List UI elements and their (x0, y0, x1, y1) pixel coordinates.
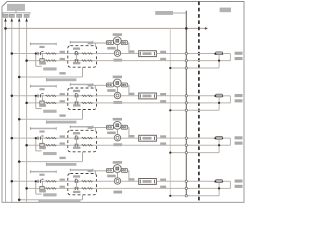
row1 breaker thermal element A1 (46, 53, 51, 55)
row2 breaker bottom label (39, 104, 46, 107)
row3 starter overload A2 (88, 137, 93, 139)
row1 rail C to A link (218, 55, 220, 68)
row3 rail A wire label mid (129, 135, 134, 137)
row2 starter K2 label bar (70, 84, 92, 86)
row4 rail A wire label mid (129, 178, 134, 180)
row3 terminal block right (121, 125, 127, 129)
row4 starter rail A inside (68, 180, 97, 182)
row3 starter rail A inside (68, 137, 97, 139)
row2 rail B to field (97, 102, 231, 104)
row3 starter overload B1 (82, 144, 87, 146)
row1 starter inner bottom label (73, 62, 80, 64)
row4 starter K4 dashed enclosure (68, 174, 97, 195)
row1 trunk terminal A (185, 52, 187, 54)
row4 trunk terminal C (185, 195, 187, 197)
row2 rail C wire (170, 109, 219, 111)
row2 starter mechanical link (76, 95, 78, 103)
row4 breaker bottom label (39, 190, 46, 193)
row2 meter M2 (114, 92, 120, 98)
row3 field loop wire (223, 137, 231, 139)
row4 starter inner bottom label (73, 191, 80, 193)
row1 breaker bottom label (39, 62, 46, 65)
row4 field device F4 (216, 180, 223, 183)
row1 rail B field wire number (160, 58, 166, 60)
row1 starter mechanical link (76, 53, 78, 61)
row1 junction bus L2 rail A (11, 52, 14, 55)
row3 rail C to A link (218, 139, 220, 152)
field boundary dashed line (198, 2, 200, 203)
row1 auxiliary tap junction (35, 52, 37, 54)
row3 cable wire from bus L3 (19, 161, 82, 163)
row2 junction bus N rail B (25, 102, 28, 105)
row4 starter mechanical link (76, 181, 78, 189)
row2 starter overload B1 (82, 102, 87, 104)
row2 starter K2 dashed enclosure (68, 88, 97, 110)
row1 rail C wire (170, 67, 219, 69)
row4 rail C tap junction (169, 195, 171, 197)
row3 link junction (218, 144, 220, 146)
row4 rail C wire (170, 195, 219, 197)
row1 coil feed stub (94, 43, 96, 46)
row2 rail A to junction box (97, 95, 115, 97)
row3 breaker mechanical link (41, 138, 43, 146)
row2 solenoid to meter link (116, 87, 118, 93)
row2 cable wire from bus L3 (19, 118, 82, 120)
row2 auxiliary tap wire (35, 96, 37, 109)
feeder arrowhead (205, 27, 208, 30)
row4 coil feed wire (90, 170, 107, 172)
row1 starter rail B inside (68, 60, 97, 62)
row2 junction bus L2 rail A (11, 95, 14, 98)
row1 terminal strip X1 (139, 51, 157, 57)
row2 output label lower (235, 99, 243, 102)
row1 rail A wire number (60, 51, 65, 53)
page border frame with folded corner (2, 2, 244, 203)
row3 field device F3 (216, 136, 223, 139)
row3 terminal block left (106, 125, 113, 129)
row4 breaker Q4 value label (39, 174, 44, 176)
wire from net label to trunk (173, 12, 186, 14)
row2 field device F2 (216, 94, 223, 97)
row1 rail A to junction box (97, 53, 115, 55)
row1 trunk terminal C (185, 67, 187, 69)
row1 terminal block left (106, 41, 113, 45)
top right reference label (220, 8, 231, 13)
row2 coil feed stub (94, 85, 96, 88)
row2 breaker thermal element A2 (51, 95, 56, 97)
row2 breaker mechanical link (41, 95, 43, 103)
row1 link junction (218, 60, 220, 62)
row1 breaker Q1 label bar (31, 43, 57, 45)
row2 starter contact pole A (74, 94, 76, 97)
row3 breaker Q3 label bar (31, 128, 57, 130)
row3 solenoid Y3 (113, 121, 121, 129)
row4 solenoid to meter link (116, 172, 118, 178)
row1 rail B to field (97, 60, 231, 62)
row2 trunk terminal A (185, 95, 187, 97)
feeder junction at bus L1 (4, 27, 7, 30)
row2 solenoid mid label (107, 89, 116, 92)
row3 rail B field wire number (160, 142, 166, 144)
row4 trunk terminal A (185, 180, 187, 182)
row3 breaker Q3 contact pole A (37, 137, 39, 140)
row1 rail A field wire number (160, 51, 166, 53)
row1 field device F1 (216, 52, 223, 55)
row1 auxiliary wire label (43, 67, 56, 70)
row3 auxiliary tap wire (35, 138, 37, 151)
row4 breaker thermal element A2 (51, 181, 56, 183)
row1 meter bottom label (114, 59, 123, 62)
row3 coil feed stub (94, 128, 96, 131)
row1 rail A to terminal strip (121, 53, 139, 55)
row2 starter overload A2 (88, 95, 93, 97)
row1 solenoid to meter link (116, 45, 118, 51)
row4 breaker thermal element B1 (46, 188, 51, 190)
row1 cable drop wire (82, 67, 84, 77)
row3 output label upper (235, 136, 243, 139)
row4 starter contact pole B (74, 187, 76, 190)
row3 starter mechanical link (76, 138, 78, 146)
row2 solenoid Y2 label (113, 76, 122, 79)
row4 cable designation bar (40, 200, 81, 202)
main horizontal feeder wire (6, 27, 206, 29)
row3 starter contact pole A (74, 137, 76, 140)
row3 breaker bottom label (39, 146, 46, 149)
row3 starter overload B2 (88, 144, 93, 146)
row1 terminal block right (121, 41, 127, 45)
row2 coil feed wire (90, 84, 107, 86)
row3 wire rail A from bus L2 (12, 137, 68, 139)
row2 cable designation bar (47, 121, 77, 124)
top net label box (155, 11, 173, 15)
row4 junction bus L2 rail A (11, 180, 14, 183)
row3 junction bus N rail B (25, 144, 28, 147)
row2 rail A wire number (60, 93, 65, 95)
row2 starter rail A inside (68, 95, 97, 97)
row4 cable wire from bus L3 (19, 199, 82, 201)
row4 starter rail B inside (68, 187, 97, 189)
row3 meter bottom label (114, 143, 123, 146)
row1 solenoid Y1 (113, 37, 121, 45)
row1 meter M1 (114, 50, 120, 56)
row4 starter overload B1 (82, 188, 87, 190)
row1 rail B wire number (60, 58, 65, 60)
row3 starter overload A1 (82, 137, 87, 139)
row2 starter inner bottom label (73, 104, 80, 106)
row4 rail B field wire number (160, 186, 166, 188)
row3 breaker thermal element B1 (46, 144, 51, 146)
row4 solenoid mid label (107, 175, 116, 178)
row4 starter overload A1 (82, 181, 87, 183)
row4 link junction (218, 187, 220, 189)
right vertical trunk wire (185, 11, 187, 197)
row4 rail C to A link (218, 183, 220, 196)
row4 auxiliary tap junction (35, 180, 37, 182)
row1 rail C tap junction (169, 67, 171, 69)
trunk junction on feeder (185, 27, 188, 30)
row2 starter contact pole B (74, 101, 76, 104)
row2 rail A to terminal strip (121, 95, 139, 97)
row3 junction bus L3 cable (18, 160, 21, 163)
row3 rail A field wire number (160, 135, 166, 137)
row1 breaker contact pole B (40, 59, 44, 62)
row2 cable drop wire (82, 110, 84, 120)
row1 breaker thermal element B1 (46, 60, 51, 62)
row4 breaker Q4 label bar (31, 171, 57, 173)
row4 junction bus L3 cable (18, 199, 21, 202)
row2 coil return wire (128, 84, 129, 86)
row2 trunk terminal B (185, 102, 187, 104)
row1 starter overload A2 (88, 53, 93, 55)
row1 field loop wire (223, 53, 231, 55)
page background (0, 0, 246, 205)
row3 solenoid mid label (107, 132, 116, 135)
row4 rail A to field (156, 180, 215, 182)
row3 junction bus L2 rail A (11, 137, 14, 140)
row1 trunk terminal B (185, 59, 187, 61)
header title block (7, 4, 25, 11)
row1 rail A to field (156, 53, 215, 55)
row2 rail B wire number (60, 100, 65, 102)
row3 breaker Q3 value label (39, 131, 44, 133)
row2 trunk terminal C (185, 109, 187, 111)
row1 output label upper (235, 52, 243, 55)
row1 coil feed wire (90, 42, 107, 44)
row2 breaker thermal element A1 (46, 95, 51, 97)
row4 breaker thermal element B2 (51, 188, 56, 190)
row1 cable designation bar (47, 78, 77, 81)
row4 meter M4 (114, 178, 120, 184)
row2 rail A wire label mid (129, 93, 134, 95)
row3 starter rail B inside (68, 144, 97, 146)
row3 breaker thermal element A1 (46, 137, 51, 139)
row2 auxiliary wire label (43, 110, 56, 113)
row1 starter overload B1 (82, 60, 87, 62)
row3 rail C tap junction (169, 152, 171, 154)
row3 cable designation bar (47, 163, 77, 166)
header stub wire (15, 11, 17, 13)
row4 coil feed stub (94, 171, 96, 174)
row2 meter bottom label (114, 101, 123, 104)
row1 wire rail A from bus L2 (12, 53, 68, 55)
row4 coil return wire (128, 170, 129, 172)
row1 junction bus N rail B (25, 59, 28, 62)
row1 breaker thermal element A2 (51, 53, 56, 55)
row2 link junction (218, 102, 220, 104)
row2 terminal strip X2 (139, 93, 157, 99)
row4 starter inner top label (73, 175, 80, 177)
row2 output label upper (235, 94, 243, 97)
row2 coil feed label (88, 85, 93, 87)
row1 coil return wire (128, 42, 129, 44)
row1 starter rail A inside (68, 53, 97, 55)
row1 cable wire from bus L3 (19, 76, 82, 78)
row3 breaker thermal element B2 (51, 144, 56, 146)
row2 breaker Q2 value label (39, 88, 44, 90)
row2 rail C to A link (218, 97, 220, 110)
row1 cable wire number (59, 72, 65, 74)
row2 starter inner top label (73, 90, 80, 92)
row1 junction bus L3 cable (18, 76, 21, 79)
row1 starter overload A1 (82, 53, 87, 55)
supply terminal labels (3, 14, 8, 17)
row3 trunk terminal A (185, 137, 187, 139)
row2 breaker thermal element B2 (51, 102, 56, 104)
row2 breaker contact pole B (40, 101, 44, 104)
row1 starter K1 dashed enclosure (68, 46, 97, 67)
row1 wire rail B from bus N (27, 60, 68, 62)
row1 output label lower (235, 57, 243, 60)
row4 rail A to terminal strip (121, 180, 139, 182)
row3 auxiliary tap junction (35, 137, 37, 139)
row2 junction bus L3 cable (18, 118, 21, 121)
row4 breaker mechanical link (41, 181, 43, 189)
row3 rail B wire number (60, 143, 65, 145)
incoming supply arrowheads (4, 19, 7, 22)
row2 wire rail A from bus L2 (12, 95, 68, 97)
row3 rail B to field (97, 144, 231, 146)
row3 breaker contact pole B (40, 143, 44, 146)
row4 solenoid Y4 (113, 165, 121, 173)
row3 starter K3 dashed enclosure (68, 130, 97, 152)
row4 terminal block left (106, 169, 113, 173)
row4 solenoid Y4 label (113, 161, 122, 164)
row4 rail A to junction box (97, 180, 115, 182)
row2 breaker Q2 label bar (31, 85, 57, 87)
row3 rail A to terminal strip (121, 137, 139, 139)
row3 starter K3 label bar (70, 126, 92, 128)
row3 solenoid to meter link (116, 129, 118, 135)
row3 breaker thermal element A2 (51, 137, 56, 139)
row4 auxiliary wire label (43, 193, 56, 196)
row2 rail A to field (156, 95, 215, 97)
row4 starter overload A2 (88, 181, 93, 183)
row1 starter contact pole B (74, 59, 76, 62)
row2 solenoid Y2 (113, 79, 121, 87)
row4 output label lower (235, 185, 243, 188)
row3 coil feed label (88, 127, 93, 129)
row3 solenoid Y3 label (113, 118, 122, 121)
row3 terminal strip X3 (139, 135, 157, 141)
row4 rail A field wire number (160, 179, 166, 181)
row4 breaker contact pole B (40, 187, 44, 190)
row2 rail A field wire number (160, 93, 166, 95)
row3 trunk terminal B (185, 144, 187, 146)
row1 starter inner top label (73, 48, 80, 50)
neutral vertical wire (169, 28, 171, 196)
row1 solenoid mid label (107, 47, 116, 50)
row2 starter overload A1 (82, 95, 87, 97)
row2 starter rail B inside (68, 102, 97, 104)
row3 starter contact pole B (74, 144, 76, 147)
row3 starter inner top label (73, 132, 80, 134)
row1 breaker mechanical link (41, 53, 43, 61)
row1 starter K1 label bar (70, 41, 92, 43)
header bracket (3, 13, 30, 14)
row2 wire rail B from bus N (27, 102, 68, 104)
row2 auxiliary tap junction (35, 95, 37, 97)
row3 output label lower (235, 142, 243, 145)
row4 cable drop wire (82, 195, 84, 200)
row2 rail C tap junction (169, 109, 171, 111)
row3 meter M3 (114, 135, 120, 141)
row1 breaker thermal element B2 (51, 60, 56, 62)
row3 cable wire number (59, 157, 65, 159)
row1 coil feed label (88, 42, 93, 44)
row4 auxiliary tap wire (35, 181, 37, 194)
row3 rail A to field (156, 137, 215, 139)
row1 breaker Q1 contact pole A (37, 52, 39, 55)
row4 junction bus N rail B (25, 187, 28, 190)
row3 wire rail B from bus N (27, 144, 68, 146)
row4 rail B to field (97, 187, 231, 189)
row3 coil return wire (128, 127, 129, 129)
row4 starter K4 label bar (70, 169, 92, 171)
row4 starter contact pole A (74, 180, 76, 183)
row1 starter overload B2 (88, 60, 93, 62)
row4 coil feed label (88, 170, 93, 172)
row2 cable wire number (59, 114, 65, 116)
row1 auxiliary tap wire (35, 54, 37, 67)
row4 terminal block right (121, 169, 127, 173)
row2 rail B field wire number (160, 100, 166, 102)
row1 starter contact pole A (74, 52, 76, 55)
row2 breaker thermal element B1 (46, 102, 51, 104)
row3 trunk terminal C (185, 151, 187, 153)
row4 breaker thermal element A1 (46, 181, 51, 183)
row4 wire rail B from bus N (27, 187, 68, 189)
row3 coil feed wire (90, 127, 107, 129)
row2 terminal block right (121, 83, 127, 87)
row3 starter inner bottom label (73, 147, 80, 149)
row1 solenoid Y1 label (113, 33, 122, 36)
row4 trunk terminal B (185, 187, 187, 189)
row3 auxiliary wire label (43, 152, 56, 155)
row2 field loop wire (223, 95, 231, 97)
row3 rail A wire number (60, 135, 65, 137)
row3 cable drop wire (82, 152, 84, 162)
row3 rail A to junction box (97, 137, 115, 139)
row2 breaker Q2 contact pole A (37, 94, 39, 97)
row4 rail B wire number (60, 186, 65, 188)
row4 wire rail A from bus L2 (12, 180, 68, 182)
row1 rail A wire label mid (129, 50, 134, 52)
row2 starter overload B2 (88, 102, 93, 104)
row3 rail C wire (170, 152, 219, 154)
row4 field loop wire (223, 180, 231, 182)
row4 rail A wire number (60, 179, 65, 181)
vertical bus lines L1 L2 L3 N (5, 17, 7, 202)
row1 breaker Q1 value label (39, 46, 44, 48)
row4 terminal strip X4 (139, 179, 157, 185)
row4 breaker Q4 contact pole A (37, 180, 39, 183)
row4 output label upper (235, 180, 243, 183)
row4 starter overload B2 (88, 188, 93, 190)
row2 terminal block left (106, 83, 113, 87)
row4 meter bottom label (114, 191, 123, 194)
